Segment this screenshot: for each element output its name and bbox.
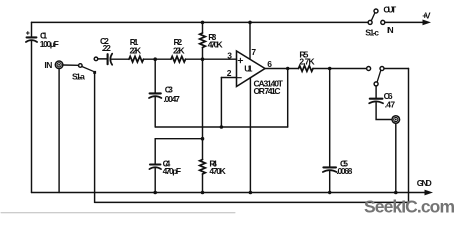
capacitor C5 branch wire <box>329 69 331 167</box>
ground arrowhead GND <box>425 190 434 196</box>
wire jack sleeve to ground <box>395 123 397 192</box>
resistor R4 top lead <box>202 139 204 160</box>
wire C4 bottom lead <box>154 168 156 193</box>
label GND <box>417 178 432 188</box>
wire bottom bypass rail <box>95 201 409 203</box>
wire R4 bottom lead <box>202 174 204 193</box>
label C1 value <box>40 30 59 49</box>
wire S1-b to C6 <box>375 86 377 98</box>
wire pin 4 to ground rail <box>249 78 251 193</box>
resistor R5 <box>299 66 313 72</box>
label C4 value <box>163 158 182 176</box>
label +V <box>422 10 431 20</box>
svg-text:470K: 470K <box>209 166 226 176</box>
wire node A to R2 <box>155 58 171 60</box>
wire R2 to op-amp pin 3 <box>186 58 237 60</box>
wire top rail +V <box>32 21 369 23</box>
jack J2 OUT <box>392 116 400 124</box>
wire bottom ground rail <box>32 192 428 194</box>
switch S1-c arm <box>371 13 375 21</box>
wire R3 bottom lead and bias column <box>202 48 204 139</box>
svg-text:7: 7 <box>251 47 256 57</box>
switch S1-a upper contact <box>94 57 98 61</box>
node C5 ground dot <box>328 191 331 194</box>
label R4 value <box>209 159 226 176</box>
svg-text:100μF: 100μF <box>40 39 59 49</box>
switch S1-c pole contact <box>368 20 372 24</box>
wire left column below C1 <box>31 41 33 193</box>
label R5 value <box>299 50 315 67</box>
wire output pin 6 <box>265 68 299 70</box>
svg-text:.47: .47 <box>385 99 396 109</box>
wire C4 top lead <box>154 139 156 164</box>
capacitor C5 <box>323 167 337 172</box>
wire R1 to node A <box>144 58 156 60</box>
op-amp minus input sign <box>238 77 242 79</box>
svg-text:OUT: OUT <box>383 5 397 15</box>
node output junction dot <box>328 67 332 71</box>
label IN <box>387 25 394 35</box>
label C2 value <box>100 36 111 53</box>
node top rail R3 dot <box>201 21 205 25</box>
switch S1-c IN contact <box>381 20 385 24</box>
svg-text:S1-c: S1-c <box>365 27 379 37</box>
resistor R1 <box>129 56 143 62</box>
wire left supply column <box>31 22 33 36</box>
svg-text:IN: IN <box>387 25 394 35</box>
svg-text:OR 741C: OR 741C <box>254 86 281 96</box>
label IN <box>44 60 52 70</box>
wire pin2 drop <box>220 78 222 128</box>
wire R3 top lead <box>202 22 204 33</box>
wire jack sleeve to ground <box>58 69 60 193</box>
svg-text:.22: .22 <box>102 43 111 53</box>
capacitor C1 <box>26 32 37 42</box>
node A junction dot <box>153 57 157 61</box>
wire C5 bottom lead <box>329 171 331 193</box>
op-amp U1 triangle <box>237 51 266 87</box>
label R2 value <box>173 37 185 56</box>
capacitor C6 <box>369 99 383 104</box>
label R1 value <box>130 37 142 56</box>
wire S1-c to +V <box>385 21 424 23</box>
capacitor C3 branch wire <box>154 59 156 92</box>
label U1 pin numbers <box>227 47 273 78</box>
label S1-a <box>72 72 85 82</box>
wire output node to S1-b <box>330 68 367 70</box>
wire C6 to jack <box>376 102 392 119</box>
svg-text:2.7K: 2.7K <box>299 57 315 67</box>
label S1-c <box>365 27 379 37</box>
op-amp plus input sign <box>238 58 242 62</box>
svg-text:3: 3 <box>227 50 232 60</box>
node C4 rail dot <box>201 137 205 141</box>
label R3 value <box>208 32 224 50</box>
wire C4 rail <box>155 138 202 140</box>
svg-text:470K: 470K <box>208 40 224 50</box>
wire pin2 stub <box>221 77 236 79</box>
wire C2 to R1 <box>111 58 129 60</box>
svg-text:U1: U1 <box>244 64 252 74</box>
wire feedback rail <box>155 126 288 128</box>
switch S1-b arm <box>377 70 381 82</box>
node feedback junction dot <box>220 125 224 129</box>
resistor R2 <box>171 56 185 62</box>
label U1 part number <box>254 78 284 96</box>
node B junction dot (bias node) <box>201 57 205 61</box>
wire S1-b right to bypass riser <box>384 68 408 70</box>
svg-text:2: 2 <box>227 68 232 78</box>
capacitor C3 <box>149 93 161 98</box>
switch S1-c OUT contact <box>374 9 378 13</box>
svg-text:IN: IN <box>44 60 52 70</box>
svg-text:S1-a: S1-a <box>72 72 85 82</box>
wire jack tip to switch pole <box>63 64 79 66</box>
label C5 value <box>336 158 352 176</box>
label C6 value <box>384 91 396 110</box>
node pin4 ground dot <box>249 191 253 195</box>
svg-text:+V: +V <box>422 10 431 20</box>
switch S1-a pole contact <box>79 64 83 68</box>
+V arrowhead <box>423 20 432 26</box>
label C3 value <box>163 85 180 104</box>
node output-feedback dot <box>286 67 289 70</box>
wire feedback riser to output <box>287 69 289 128</box>
switch S1-b right contact <box>380 67 384 71</box>
wire bypass down from square <box>94 74 96 203</box>
wire pin 7 to top rail <box>249 22 251 59</box>
switch S1-b lower contact <box>374 82 378 86</box>
svg-text:.0047: .0047 <box>163 94 180 104</box>
jack J1 IN <box>55 61 63 69</box>
node jack ground dot <box>394 191 398 195</box>
resistor R4 <box>200 160 206 174</box>
scan artifact line bottom left <box>1 212 235 214</box>
resistor R3 <box>200 33 206 48</box>
switch S1-a arm <box>82 67 93 72</box>
svg-text:GND: GND <box>417 178 432 188</box>
wire R5 to output node <box>313 68 330 70</box>
svg-text:.0068: .0068 <box>336 166 352 176</box>
svg-text:22K: 22K <box>130 45 142 55</box>
node C4 ground dot <box>153 191 157 195</box>
capacitor C4 <box>149 165 161 170</box>
switch S1-b left contact <box>367 67 371 71</box>
wire C3 down to feedback rail <box>154 97 156 127</box>
node pin7 top rail dot <box>248 21 252 25</box>
svg-text:22K: 22K <box>173 45 185 55</box>
capacitor C2 <box>108 54 113 65</box>
wire upper contact to C2 <box>98 58 107 60</box>
switch S1-a lower contact (square) <box>93 71 96 74</box>
svg-text:6: 6 <box>267 59 272 69</box>
label OUT <box>383 5 397 15</box>
node R4 ground dot <box>201 191 205 195</box>
svg-text:470pF: 470pF <box>163 166 182 176</box>
svg-text:SeekIC.com: SeekIC.com <box>364 197 455 217</box>
wire bypass riser <box>408 69 410 203</box>
